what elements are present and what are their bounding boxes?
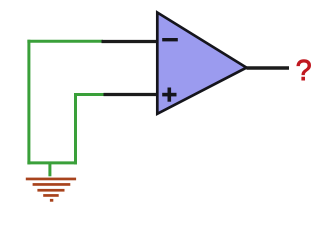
wire: bottom junction horizontal green segment	[27, 161, 77, 164]
wire: top feedback horizontal (green) from left corner to inverting input	[27, 40, 103, 43]
wire: output black	[247, 66, 290, 70]
wire: right vertical green segment from non-inverting input down to junction	[74, 93, 77, 164]
svg-text:?: ?	[296, 55, 312, 87]
pin label: minus (inverting input)	[162, 38, 178, 41]
wire: ground stub vertical green	[48, 163, 51, 176]
pin label: plus (non-inverting input)	[162, 88, 176, 102]
wire: left vertical green segment	[27, 40, 30, 165]
wire: bottom horizontal green segment to non-inverting input	[74, 93, 106, 96]
op-amp U1 triangle body	[157, 13, 246, 114]
wire: inverting input black stub	[102, 40, 159, 43]
wire: non-inverting input black stub	[104, 93, 159, 96]
ground symbol (earth, 5 bars)	[26, 178, 76, 202]
